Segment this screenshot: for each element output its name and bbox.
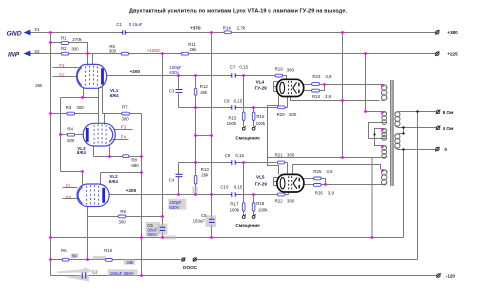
terminal +380	[435, 30, 440, 35]
svg-text:R26: R26	[315, 190, 324, 195]
svg-text:300: 300	[118, 219, 126, 224]
node anode line R12 tap	[194, 74, 197, 77]
svg-text:R15: R15	[228, 115, 237, 120]
tube VL1 grids dashed	[86, 66, 98, 88]
wire R25 line	[304, 179, 326, 185]
svg-text:150uF: 150uF	[193, 218, 206, 223]
svg-text:C8: C8	[224, 98, 230, 103]
svg-text:100k: 100k	[256, 121, 266, 126]
node C10 line C4 bottom	[177, 193, 180, 196]
svg-text:300: 300	[109, 48, 117, 53]
wire feedback rail y=259.9	[51, 259, 418, 261]
resistor R22	[277, 193, 285, 196]
resistor R14	[224, 31, 231, 34]
wire VL2 cathode riser x=87.7	[87, 207, 89, 260]
capacitor C6 electrolytic	[209, 219, 215, 222]
svg-text:R5: R5	[61, 248, 67, 253]
ghost smudge below R13	[192, 187, 197, 194]
wire VL5 heater stubs	[274, 178, 278, 186]
transformer secondary winding lower	[395, 134, 400, 150]
capacitor C5 electrolytic	[160, 227, 166, 230]
svg-text:33k: 33k	[126, 260, 134, 265]
tube VL4 anode bars	[298, 83, 300, 93]
node feedback tap on 8ohm	[416, 110, 418, 112]
wire R8 line y=156.2	[94, 156, 142, 158]
svg-text:VL5: VL5	[256, 175, 265, 180]
svg-text:R7: R7	[122, 104, 128, 109]
wire VL4 heater stubs	[274, 82, 278, 92]
resistor R25	[313, 177, 321, 180]
svg-text:R25: R25	[313, 169, 322, 174]
wire secondary 8ohm lead	[400, 111, 437, 113]
ghost box behind 150uF 350V	[108, 269, 138, 275]
svg-text:ГУ-29: ГУ-29	[255, 182, 268, 187]
tube VL1 cathode arc	[77, 67, 82, 85]
wire R23 anode line y=84 to S1 top	[304, 84, 382, 86]
ghost box behind C6 cap	[206, 215, 217, 227]
wire ground rail y=238.3	[51, 237, 404, 239]
svg-text:R14: R14	[223, 26, 232, 31]
node R1 tap	[49, 41, 52, 44]
node junction dots magenta	[49, 31, 384, 277]
node R9 right on +120 riser	[161, 215, 164, 218]
svg-text:270k: 270k	[72, 37, 82, 42]
bias terminal pin lower right	[252, 214, 255, 218]
tube VL1 anode bar	[101, 68, 104, 84]
terminal 4 Ohm	[436, 126, 441, 131]
wire +370 riser x=342.2	[342, 33, 344, 158]
wire cathode bus to ground rail y=157.1	[268, 158, 382, 238]
svg-text:Смещение: Смещение	[235, 135, 260, 140]
svg-text:F1: F1	[59, 63, 65, 68]
svg-text:R1: R1	[61, 35, 67, 40]
node S2 top +225	[364, 110, 367, 113]
wire -120 rail y=274.6	[51, 275, 437, 277]
wire GND vertical bus x=50	[50, 33, 52, 276]
wire feedback riser to 8ohm tap	[417, 112, 419, 260]
node R8 to VL3 cathode	[108, 155, 111, 158]
node +120V	[161, 52, 164, 55]
wire +120V vertical x=162.5 with C5 in series	[162, 54, 164, 238]
wire VL2 filament stubs F1 F2	[63, 188, 78, 199]
svg-text:X1: X1	[34, 27, 40, 32]
svg-text:F3: F3	[121, 125, 127, 130]
svg-text:R20: R20	[277, 112, 286, 117]
wire VL3 screen pin riser	[104, 114, 106, 125]
wire R1 branch from GND bus to grid node	[51, 43, 88, 54]
bias terminal pin upper right	[252, 126, 255, 130]
transformer primary winding S1	[382, 85, 387, 101]
resistor R18 vertical	[252, 203, 255, 212]
svg-text:F2: F2	[66, 195, 72, 200]
resistor R7	[122, 112, 130, 115]
svg-text:300: 300	[76, 105, 84, 110]
svg-text:INP: INP	[8, 52, 20, 59]
svg-text:2,7k: 2,7k	[237, 26, 246, 31]
wire VL3 filament stubs F3 F4	[113, 130, 133, 140]
wire VL1 grid riser	[87, 54, 89, 66]
node R16 tap	[252, 106, 255, 109]
svg-text:26k: 26k	[201, 173, 209, 178]
svg-text:300: 300	[287, 153, 295, 158]
node VL1 cathode tee	[81, 96, 84, 99]
terminal 8 Ohm	[436, 110, 441, 115]
switch OOOC contact left	[181, 257, 185, 261]
svg-text:3,9: 3,9	[326, 169, 333, 174]
tube VL2 grids dashed	[87, 185, 99, 205]
tube VL5 cathode arc	[280, 178, 285, 189]
svg-text:300: 300	[71, 46, 79, 51]
node +370 tap	[210, 31, 213, 34]
tube VL2 cathode arc	[78, 187, 83, 204]
transformer core	[391, 80, 393, 186]
wire C9 line y=161.7	[179, 162, 277, 164]
node S5 phase dot	[381, 169, 384, 172]
node X1/GND bus	[49, 31, 52, 34]
svg-text:26k: 26k	[35, 83, 43, 88]
svg-text:6Ж4: 6Ж4	[109, 179, 119, 184]
svg-text:C2: C2	[92, 269, 98, 274]
svg-text:R12: R12	[200, 84, 209, 89]
node VL3 anode link right	[210, 134, 213, 137]
svg-text:R4: R4	[67, 127, 73, 132]
wire C8 line y=107.3	[179, 107, 288, 109]
svg-text:680: 680	[131, 163, 139, 168]
transformer secondary winding upper	[395, 112, 400, 128]
node B+ riser tap	[341, 31, 344, 34]
node S3-S4 jumper dot	[373, 133, 375, 135]
svg-text:C9: C9	[225, 153, 231, 158]
transformer primary winding S4	[382, 146, 387, 159]
wire R9 line y=216.4	[88, 216, 163, 218]
capacitor C7	[230, 73, 238, 77]
tube VL5 GU-29 envelope	[277, 174, 304, 192]
svg-text:F2: F2	[59, 73, 65, 78]
svg-text:C1: C1	[116, 22, 122, 27]
resistor R6	[121, 52, 128, 55]
resistor R26	[313, 184, 321, 187]
wire top +370/+380 line from GND junction to +380 terminal	[29, 32, 436, 34]
svg-text:0,15: 0,15	[234, 98, 243, 103]
transformer primary winding S2	[382, 112, 387, 125]
svg-text:100k: 100k	[227, 121, 237, 126]
node VL3 anode link left	[194, 134, 197, 137]
tube VL3 6Zh4 envelope mirrored	[83, 123, 115, 146]
svg-text:0: 0	[444, 147, 447, 152]
svg-text:C7: C7	[230, 65, 236, 70]
wire R4 line to VL3 anode	[61, 134, 84, 136]
svg-text:+200: +200	[130, 69, 141, 74]
svg-text:-120: -120	[446, 274, 456, 279]
wire VL5 upper grid riser	[287, 163, 289, 175]
svg-text:R23: R23	[312, 74, 321, 79]
svg-text:0,15: 0,15	[235, 153, 244, 158]
node sec jumper top	[402, 126, 404, 128]
wire secondary 0 lead	[400, 150, 437, 238]
svg-text:150uF 350V: 150uF 350V	[110, 271, 134, 276]
node VL1 grid	[86, 52, 89, 55]
ghost selection artifact arrow near C2	[57, 267, 93, 282]
wire INP/+225 line across schematic	[29, 53, 436, 55]
capacitor C4	[176, 174, 183, 176]
svg-text:R21: R21	[275, 153, 284, 158]
wire VL2 grid feed	[61, 172, 83, 185]
wire VL1 filament stubs F1 F2	[53, 68, 79, 77]
resistor R16 vertical	[252, 112, 255, 120]
resistor R1	[61, 42, 68, 45]
svg-text:F4: F4	[121, 134, 127, 139]
svg-text:0,15: 0,15	[234, 185, 243, 190]
node C8 line R12 bottom	[194, 106, 197, 109]
wire R21 segment to VL5	[286, 162, 288, 164]
svg-text:8 Ом: 8 Ом	[443, 110, 454, 115]
svg-text:C4: C4	[169, 177, 175, 182]
tube VL4 GU-29 envelope	[277, 79, 304, 96]
svg-text:R16: R16	[256, 114, 265, 119]
svg-text:R2: R2	[61, 46, 67, 51]
resistor R19	[275, 74, 283, 77]
tube VL5 anode bars	[298, 178, 300, 188]
svg-text:3,9: 3,9	[325, 94, 332, 99]
wire +225 riser x=365.4 to S2 top	[366, 54, 382, 112]
wire C3/R12 top junction line is part of anode line; C3 branch	[178, 76, 180, 108]
wire R7/R8 junction down to VL2 screen	[101, 114, 142, 276]
node rail jumper bottom	[140, 274, 143, 277]
svg-text:+370: +370	[190, 26, 201, 31]
node S2 phase dot	[381, 111, 384, 114]
node +225 riser tap	[364, 52, 367, 55]
resistor R20	[278, 106, 286, 109]
wire R26 line y=184.9 to S5 bottom	[304, 184, 382, 186]
resistor R23	[312, 83, 320, 86]
svg-text:R18: R18	[256, 201, 265, 206]
node C5 bottom	[161, 236, 164, 239]
resistor R12 vertical	[194, 88, 197, 95]
svg-text:630V: 630V	[169, 205, 179, 210]
capacitor C1	[121, 30, 128, 34]
svg-text:300: 300	[287, 199, 295, 204]
node C10 line R13 bottom	[194, 193, 197, 196]
svg-text:R22: R22	[275, 199, 284, 204]
svg-text:300: 300	[121, 117, 129, 122]
tube VL4 cathode arc	[280, 82, 285, 93]
resistor R5	[62, 258, 69, 261]
svg-text:300: 300	[67, 138, 75, 143]
svg-text:4 Ом: 4 Ом	[443, 126, 454, 131]
svg-text:R24: R24	[312, 94, 321, 99]
wire R24 link to anode node	[304, 85, 325, 91]
svg-text:GND: GND	[7, 30, 22, 37]
resistor R4	[67, 133, 74, 136]
svg-text:300: 300	[289, 112, 297, 117]
svg-text:Двухтактный усилитель по мотив: Двухтактный усилитель по мотивам Lynx VT…	[129, 7, 347, 14]
terminal 0	[435, 147, 440, 152]
wire C4 branch x=179	[178, 163, 180, 195]
terminal +225	[435, 51, 440, 56]
capacitor C9	[230, 160, 238, 164]
svg-text:ГУ-29: ГУ-29	[255, 85, 268, 90]
wire VL4 lower grid riser	[287, 97, 289, 108]
tube VL4 beam chevron	[293, 82, 297, 93]
capacitor C8	[230, 105, 238, 109]
node S4 phase dot	[381, 145, 384, 148]
wire VL4 cathode path	[268, 96, 279, 175]
resistor R24	[312, 89, 320, 92]
svg-text:+225: +225	[447, 52, 458, 57]
svg-text:R19: R19	[275, 67, 284, 72]
bias terminal pin lower left	[242, 214, 246, 218]
node anode line C3 tap	[177, 74, 180, 77]
switch OOOC contact right	[193, 257, 197, 261]
resistor R8	[123, 155, 129, 158]
ghost bar under R10	[93, 256, 106, 260]
wire S3 top to S4 top jumper	[375, 129, 383, 146]
resistor R3	[67, 112, 75, 115]
node VL2 screen tap on riser	[140, 171, 143, 174]
node 0 tap	[402, 148, 404, 150]
wire +370 vertical x=211.7 with C6	[211, 33, 213, 238]
svg-text:300: 300	[287, 68, 295, 73]
svg-text:ОООС: ОООС	[183, 265, 198, 270]
tube VL2 6Zh4 envelope	[77, 184, 109, 207]
svg-text:X2: X2	[34, 49, 40, 54]
capacitor C2 electrolytic	[82, 272, 85, 278]
terminal X2 arrow INP	[24, 51, 31, 57]
wire VL1 bottom pins	[84, 87, 103, 124]
wire VL3 bottom pins to R8 line	[94, 146, 110, 157]
node C9 line R17 tap	[242, 161, 245, 164]
terminal X1 arrow GND	[24, 30, 31, 36]
wire S2 bottom jumper	[369, 123, 383, 139]
transformer primary winding S5	[382, 170, 387, 185]
node rail jumper top	[140, 236, 143, 239]
wire secondary series jumper with 4ohm tap	[400, 128, 437, 134]
node C6 bottom	[210, 236, 213, 239]
node ground rail left end	[49, 236, 52, 239]
resistor R17 vertical	[242, 203, 245, 212]
wire VL4 beam pin to S1 bottom y=100.9	[291, 97, 380, 101]
wire VL2 anode / C10 line y=194.5	[109, 194, 289, 196]
resistor R2	[61, 52, 68, 55]
node secondary tap dots black	[373, 110, 418, 150]
transformer primary winding S3	[382, 129, 387, 141]
node R15 tap	[242, 74, 245, 77]
ghost box behind ghost 100pF 630v label	[168, 199, 186, 210]
wire R3 line y=113.6	[51, 113, 99, 115]
ghost smudge on ground rail near C5	[163, 236, 176, 240]
node S4 bottom B+	[341, 156, 344, 159]
tube VL3 grids dashed	[94, 124, 106, 145]
wire R7 line y=113.6	[103, 113, 142, 115]
svg-text:R3: R3	[66, 105, 72, 110]
resistor R11	[181, 52, 188, 55]
node VL2 grid corner	[81, 170, 84, 173]
svg-text:0,15: 0,15	[239, 65, 248, 70]
capacitor C3	[176, 90, 183, 93]
svg-text:450v: 450v	[147, 232, 157, 237]
svg-text:26k: 26k	[200, 90, 208, 95]
svg-text:C3: C3	[169, 89, 175, 94]
node R25/R26 anode join	[324, 183, 327, 186]
wire R17 branch	[243, 163, 245, 216]
node sec jumper bottom	[402, 132, 404, 134]
wire R18 branch	[253, 195, 255, 216]
resistor R9	[118, 215, 126, 218]
resistor R15 vertical	[242, 112, 245, 120]
svg-text:100k: 100k	[258, 208, 268, 213]
tube VL5 beam chevron	[293, 178, 297, 189]
wire R16 branch	[253, 108, 255, 127]
resistor R10	[105, 259, 112, 262]
tube VL3 cathode arc	[109, 127, 112, 142]
svg-text:26k: 26k	[189, 47, 197, 52]
wire VL5 lower grid riser	[288, 192, 290, 195]
node S1 phase dot	[381, 84, 384, 87]
node R4 tap	[59, 133, 62, 136]
wire feedback/cathode vertical x=60.4	[60, 98, 62, 172]
tube VL4 grids dashed	[288, 81, 291, 95]
tube VL5 grids dashed	[289, 176, 292, 190]
svg-text:0.15uF: 0.15uF	[129, 22, 143, 27]
svg-text:100k: 100k	[230, 208, 240, 213]
svg-text:630v: 630v	[169, 70, 179, 75]
svg-text:6Ж4: 6Ж4	[110, 93, 120, 98]
svg-text:R10: R10	[104, 248, 113, 253]
node C9 line R13 riser tap	[194, 161, 197, 164]
ghost box behind 5k	[71, 254, 79, 258]
ghost box behind C5 labels	[146, 222, 160, 237]
node VL2 cathode on feedback rail	[86, 258, 89, 261]
terminal -120	[436, 273, 441, 278]
ghost box behind 33k	[124, 259, 136, 264]
svg-text:C10: C10	[220, 185, 229, 190]
svg-text:3,9: 3,9	[328, 190, 335, 195]
tube VL2 anode bar	[102, 188, 105, 203]
node C10 line R18 tap	[252, 193, 255, 196]
wire VL1 anode line y=75.5 to C7 and VL4 grid	[107, 76, 287, 80]
svg-text:Смещение: Смещение	[235, 223, 260, 228]
svg-text:VL4: VL4	[256, 80, 265, 85]
node R8 right on R7 riser	[140, 155, 143, 158]
svg-text:+200: +200	[126, 188, 137, 193]
node feedback rail left	[49, 258, 52, 261]
resistor R13 vertical	[194, 175, 197, 184]
wire VL1 cathode link y=97.3	[61, 97, 99, 99]
tube VL1 6Zh4 envelope	[77, 64, 107, 88]
svg-text:R9: R9	[120, 209, 126, 214]
wire VL1 screen riser	[92, 54, 94, 65]
node R23/R24 anode join	[323, 83, 326, 86]
node R3 tap	[49, 112, 52, 115]
svg-text:6Ж4: 6Ж4	[77, 150, 87, 155]
bias terminal pin upper left	[242, 126, 246, 130]
resistor R21	[277, 161, 285, 164]
svg-text:5k: 5k	[72, 253, 77, 258]
node cathode riser on ground rail	[371, 236, 374, 239]
tube VL3 anode bar	[86, 128, 89, 142]
svg-text:F1: F1	[66, 183, 72, 188]
svg-text:R17: R17	[230, 202, 239, 207]
wire VL3 anode link y=135.3	[196, 135, 212, 137]
svg-text:R13: R13	[201, 167, 210, 172]
wire R12/R13 vertical x=195.6	[195, 76, 197, 195]
svg-text:+380: +380	[447, 30, 458, 35]
node S3 phase dot	[381, 128, 384, 131]
node S1 bottom B+	[341, 99, 344, 102]
wire VL5 beam pin to S5 top y=164.7	[293, 165, 381, 175]
node C10 line C6 tap	[210, 193, 213, 196]
svg-text:+120V: +120V	[147, 48, 160, 53]
